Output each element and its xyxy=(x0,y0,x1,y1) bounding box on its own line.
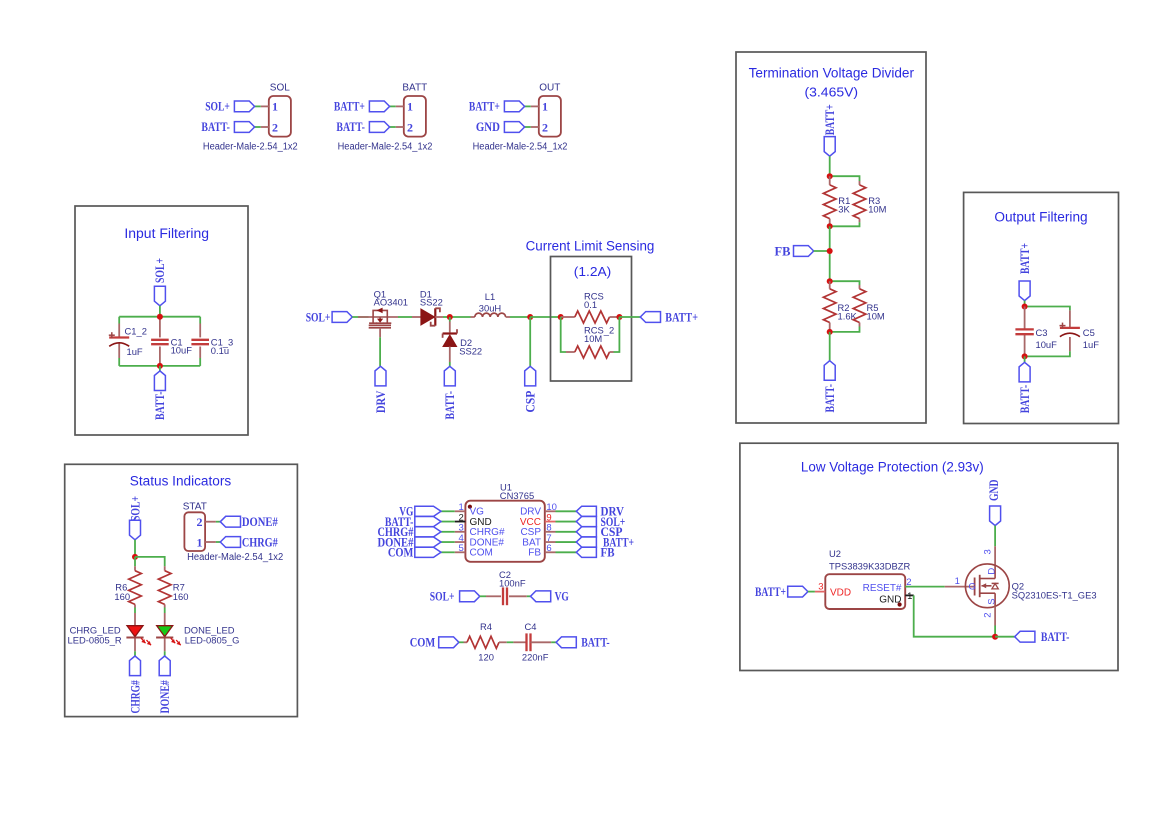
wire input filter bottom rail xyxy=(119,365,200,367)
U2 pin 1 (GND) black stub xyxy=(905,594,914,596)
wire to header SOL pin 1 xyxy=(255,105,261,107)
wire L1 to CSP node xyxy=(510,316,530,318)
net flag BATT+ (output filter) xyxy=(1019,281,1030,301)
wire BATT+ flag to U2 VDD xyxy=(808,591,815,593)
wire BATT+ flag to node xyxy=(1024,301,1026,307)
net flag DRV xyxy=(375,366,386,386)
resistor R6 leads xyxy=(134,566,136,571)
svg-text:SOL: SOL xyxy=(270,83,290,94)
header BATT pin 1 lead xyxy=(396,105,404,107)
wire Q1 drain to D1 xyxy=(398,316,412,318)
IC U2 TPS3839K33DBZR body xyxy=(825,574,905,609)
node BATT- junction (LVP) xyxy=(992,634,998,640)
node second divider top junction xyxy=(827,278,833,284)
net flag SOL+ (U1 pin 9) xyxy=(576,516,596,526)
svg-text:100nF: 100nF xyxy=(499,578,526,589)
svg-text:(1.2A): (1.2A) xyxy=(574,265,612,279)
svg-text:Input Filtering: Input Filtering xyxy=(124,226,209,241)
wire divider bottom to BATT- flag xyxy=(829,332,831,361)
net flag SOL+ (C2 row) xyxy=(460,591,480,602)
net flag BATT- (LVP) xyxy=(1015,631,1035,642)
connector header BATT xyxy=(404,96,426,137)
resistor R7 160 xyxy=(158,571,171,605)
wire SOL+ flag to node xyxy=(134,540,136,557)
wire from U1 pin 7 xyxy=(556,541,577,543)
resistor RCS lead right xyxy=(610,316,620,318)
section box Status Indicators xyxy=(65,464,298,716)
net flag BATT- (U1 pin 2) xyxy=(415,516,441,526)
wire C4 to BATT- flag xyxy=(551,641,556,643)
net flag SOL+ (main row) xyxy=(332,312,352,323)
U1 pin 1 polarity dot xyxy=(468,505,472,509)
resistor R5 leads xyxy=(859,285,861,289)
svg-text:3K: 3K xyxy=(838,204,850,215)
resistor R4 lead left xyxy=(464,641,468,643)
wire to U1 pin 2 xyxy=(441,521,455,523)
svg-text:Header-Male-2.54_1x2: Header-Male-2.54_1x2 xyxy=(473,142,568,153)
transistor Q2 gate lead xyxy=(945,586,974,588)
resistor RCS_2 lead left xyxy=(566,351,575,353)
svg-text:BATT+: BATT+ xyxy=(823,104,837,135)
node RCS left junction xyxy=(558,314,564,320)
svg-text:Output Filtering: Output Filtering xyxy=(994,210,1087,225)
svg-text:AO3401: AO3401 xyxy=(374,297,408,308)
svg-text:GND: GND xyxy=(987,480,1001,502)
svg-text:SOL+: SOL+ xyxy=(430,590,455,604)
net flag FB (U1 pin 6) xyxy=(576,547,596,557)
svg-text:BATT-: BATT- xyxy=(201,120,230,134)
capacitor C1 leads xyxy=(159,317,161,338)
net flag VG (U1 pin 1) xyxy=(415,506,441,516)
net flag GND xyxy=(990,506,1001,526)
resistor R3 10M xyxy=(853,185,866,219)
wire to header SOL pin 2 xyxy=(255,126,261,128)
header STAT pin 1 lead xyxy=(205,541,216,543)
svg-text:VG: VG xyxy=(555,590,569,604)
wire D2 to BATT- flag xyxy=(449,362,451,366)
wire to U1 pin 3 xyxy=(441,531,455,533)
svg-text:1uF: 1uF xyxy=(1083,339,1099,350)
svg-text:BATT+: BATT+ xyxy=(755,585,786,599)
net flag BATT- at header SOL pin 2 xyxy=(234,122,254,133)
svg-text:FB: FB xyxy=(775,244,791,258)
svg-text:G: G xyxy=(969,581,976,592)
capacitor C1_2 (polarized 1uF) xyxy=(109,336,129,338)
diode D1 SS22 (schottky) xyxy=(421,309,435,325)
U1 pin 8 (CSP) lead xyxy=(545,531,556,533)
svg-text:OUT: OUT xyxy=(539,83,560,94)
svg-text:FB: FB xyxy=(601,546,615,560)
wire R4 to C4 xyxy=(507,641,514,643)
capacitor C4 lead left xyxy=(513,641,526,643)
svg-text:LED-0805_G: LED-0805_G xyxy=(185,635,240,646)
wire node to BATT- flag xyxy=(159,366,161,371)
resistor RCS_2 10M xyxy=(575,346,610,358)
section box Input Filtering xyxy=(75,206,248,435)
net flag DONE# xyxy=(159,656,170,676)
svg-text:2: 2 xyxy=(272,120,278,134)
net flag BATT+ (U2 VDD) xyxy=(788,586,808,597)
wire R2/R5 bottom link xyxy=(830,327,860,332)
svg-text:BATT-: BATT- xyxy=(581,636,610,650)
wire DONE_LED to DONE# flag xyxy=(164,651,166,656)
wire left branch for C1_2 xyxy=(118,317,120,324)
net flag COM (R4 row) xyxy=(439,637,459,648)
CSP node junction xyxy=(527,314,533,320)
wire R1/R3 top link xyxy=(830,176,860,181)
svg-text:10uF: 10uF xyxy=(1036,339,1058,350)
net flag SOL+ at header SOL pin 1 xyxy=(234,101,254,112)
capacitor C4 lead right xyxy=(531,641,552,643)
svg-text:STAT: STAT xyxy=(183,502,207,513)
resistor R1 3K xyxy=(823,185,836,219)
net flag DRV (U1 pin 10) xyxy=(576,506,596,516)
capacitor C3 leads xyxy=(1024,307,1026,330)
wire to header BATT pin 2 xyxy=(390,126,396,128)
svg-text:160: 160 xyxy=(173,591,189,602)
capacitor C5 leads xyxy=(1069,310,1071,327)
svg-text:DRV: DRV xyxy=(374,391,388,414)
LED CHRG_LED cathode lead xyxy=(134,639,136,652)
wire branch to R7 xyxy=(135,557,165,566)
svg-text:VDD: VDD xyxy=(830,588,851,599)
svg-text:FB: FB xyxy=(528,548,541,559)
svg-text:U2: U2 xyxy=(829,548,841,559)
svg-text:BATT-: BATT- xyxy=(1041,630,1070,644)
IC U1 CN3765 body xyxy=(465,501,544,562)
svg-text:SS22: SS22 xyxy=(420,297,443,308)
wire input filter top rail xyxy=(119,316,200,318)
svg-text:SS22: SS22 xyxy=(459,345,482,356)
svg-text:10M: 10M xyxy=(584,333,602,344)
U2 pin 3 (VDD) lead xyxy=(815,591,825,593)
wire RCS to BATT+ flag xyxy=(619,316,640,318)
wire to header BATT pin 1 xyxy=(390,105,396,107)
wire U2 RESET# to Q2 gate xyxy=(905,586,945,588)
capacitor C1 (10uF) xyxy=(151,339,169,341)
wire to header OUT pin 1 xyxy=(525,105,531,107)
junction node input filter bottom xyxy=(157,363,163,369)
svg-text:0.1u: 0.1u xyxy=(211,345,229,356)
wire from U1 pin 9 xyxy=(556,521,577,523)
U1 pin 6 (FB) lead xyxy=(545,551,556,553)
node A junction xyxy=(447,314,453,320)
wire C5 bottom link xyxy=(1025,351,1070,356)
svg-text:1: 1 xyxy=(542,100,548,114)
diode D2 cathode lead xyxy=(449,322,451,333)
svg-text:1: 1 xyxy=(955,576,960,587)
svg-text:Current Limit Sensing: Current Limit Sensing xyxy=(526,239,655,254)
svg-text:(3.465V): (3.465V) xyxy=(805,86,859,100)
svg-text:2: 2 xyxy=(197,515,203,529)
transistor Q2 drain lead xyxy=(994,546,996,565)
svg-text:1: 1 xyxy=(272,100,278,114)
LED DONE_LED anode lead xyxy=(164,613,166,626)
svg-text:DONE#: DONE# xyxy=(158,680,172,714)
header SOL pin 2 lead xyxy=(261,126,269,128)
section box Low Voltage Protection xyxy=(740,443,1118,670)
net flag SOL+ (input filter top) xyxy=(154,286,165,306)
svg-text:10M: 10M xyxy=(868,204,886,215)
wire header STAT pin 2 xyxy=(216,521,220,523)
wire SOL+ flag to node xyxy=(159,306,161,317)
net flag BATT- (input filter bottom) xyxy=(154,371,165,391)
svg-text:1: 1 xyxy=(197,535,203,549)
resistor RCS_2 lead right xyxy=(610,351,614,353)
wire to U1 pin 5 xyxy=(441,551,455,553)
svg-text:LED-0805_R: LED-0805_R xyxy=(68,635,122,646)
junction node input filter top xyxy=(157,314,163,320)
wire GND flag to Q2 drain xyxy=(994,526,996,547)
wire C2 to VG flag xyxy=(527,595,531,597)
svg-text:CSP: CSP xyxy=(524,390,538,412)
capacitor C5 1uF (polarized) xyxy=(1060,327,1080,329)
U1 pin 7 (BAT) lead xyxy=(545,541,556,543)
wire R1/R3 bottom link xyxy=(830,222,860,226)
wire to U1 pin 1 xyxy=(441,510,455,512)
resistor RCS 0.1 (current sense) xyxy=(575,311,610,323)
svg-text:C1_2: C1_2 xyxy=(125,326,147,337)
U1 pin 4 (DONE#) lead xyxy=(455,541,466,543)
svg-text:Low Voltage Protection (2.93v): Low Voltage Protection (2.93v) xyxy=(801,460,984,475)
wire from U1 pin 10 xyxy=(556,510,577,512)
section box Output Filtering xyxy=(964,192,1119,423)
svg-text:1uF: 1uF xyxy=(127,346,143,357)
svg-text:S: S xyxy=(986,598,997,604)
capacitor C1_2 leads xyxy=(118,324,120,338)
svg-text:BATT: BATT xyxy=(402,83,427,94)
U2 GND polarity dot xyxy=(898,602,902,606)
net flag BATT- (under D2) xyxy=(444,366,455,386)
capacitor C2 lead left xyxy=(486,595,501,597)
wire junction to BATT- flag xyxy=(995,636,1015,638)
svg-text:5: 5 xyxy=(459,543,464,554)
svg-text:Status Indicators: Status Indicators xyxy=(130,474,232,489)
svg-text:BATT-: BATT- xyxy=(1018,385,1032,414)
wire D1 to node A xyxy=(443,316,450,318)
svg-text:BATT+: BATT+ xyxy=(469,100,500,114)
wire divider mid to FB node xyxy=(829,226,831,281)
svg-text:BATT+: BATT+ xyxy=(1018,243,1032,274)
svg-text:COM: COM xyxy=(388,546,414,560)
svg-text:Header-Male-2.54_1x2: Header-Male-2.54_1x2 xyxy=(338,142,433,153)
svg-text:DONE#: DONE# xyxy=(242,515,279,529)
svg-text:BATT+: BATT+ xyxy=(665,310,698,324)
net flag BATT- at header BATT pin 2 xyxy=(369,122,389,133)
svg-text:COM: COM xyxy=(410,636,436,650)
svg-text:120: 120 xyxy=(478,652,494,663)
net flag VG (C2 row) xyxy=(531,591,551,602)
svg-text:SOL+: SOL+ xyxy=(153,258,167,283)
wire to U1 pin 4 xyxy=(441,541,455,543)
inductor L1 lead left xyxy=(471,316,475,318)
capacitor C4 220nF xyxy=(525,633,527,651)
net flag DONE# (U1 pin 4) xyxy=(415,537,441,547)
net flag CSP (U1 pin 8) xyxy=(576,527,596,537)
node output filter bottom junction xyxy=(1022,353,1028,359)
node RCS right junction xyxy=(616,314,622,320)
connector header SOL xyxy=(269,96,291,137)
capacitor C1_3 leads xyxy=(199,324,201,338)
wire Q2 source to BATT- junction xyxy=(994,626,996,637)
svg-text:2: 2 xyxy=(542,120,548,134)
diode D2 anode lead xyxy=(449,347,451,362)
wire header STAT pin 1 xyxy=(216,541,220,543)
wire right branch for C1_3 xyxy=(199,317,201,324)
svg-text:2: 2 xyxy=(983,613,994,618)
svg-text:Termination Voltage Divider: Termination Voltage Divider xyxy=(749,66,915,81)
svg-text:SOL+: SOL+ xyxy=(205,100,230,114)
net flag BATT- (divider bottom) xyxy=(824,361,835,381)
wire R2/R5 top link xyxy=(830,281,860,285)
node FB junction xyxy=(827,248,833,254)
wire C5 top link xyxy=(1025,307,1070,311)
wire RCS_2 left branch xyxy=(561,317,566,352)
wire SOL+ flag to C2 xyxy=(480,595,486,597)
inductor L1 lead right xyxy=(506,316,510,318)
net flag BATT- (R4 row) xyxy=(556,637,576,648)
resistor R5 10M xyxy=(853,289,866,323)
wire SOL+ flag to Q1 xyxy=(352,316,368,318)
U1 pin 1 (VG) lead xyxy=(455,510,466,512)
capacitor C2 lead right xyxy=(509,595,527,597)
resistor R4 120 xyxy=(467,636,499,648)
svg-text:R4: R4 xyxy=(480,621,492,632)
resistor R6 160 xyxy=(129,571,142,605)
resistor R7 leads xyxy=(164,566,166,571)
svg-text:RESET#: RESET# xyxy=(863,583,902,594)
svg-text:Header-Male-2.54_1x2: Header-Male-2.54_1x2 xyxy=(187,552,284,563)
transistor Q1 gate lead xyxy=(379,328,381,338)
svg-text:BATT-: BATT- xyxy=(336,120,365,134)
resistor R1 leads xyxy=(829,176,831,185)
node output filter top junction xyxy=(1022,304,1028,310)
net flag GND at header OUT pin 2 xyxy=(504,122,524,133)
wire node A to L1 xyxy=(450,316,471,318)
header OUT pin 2 lead xyxy=(531,126,539,128)
resistor R3 leads xyxy=(859,181,861,185)
wire node to BATT- flag xyxy=(1024,356,1026,362)
svg-text:6: 6 xyxy=(546,543,551,554)
wire FB flag to node xyxy=(814,250,830,252)
wire to header OUT pin 2 xyxy=(525,126,531,128)
wire Q1 gate to DRV flag xyxy=(379,337,381,366)
header STAT pin 2 lead xyxy=(205,521,216,523)
U1 pin 9 (VCC) lead xyxy=(545,521,556,523)
svg-text:3: 3 xyxy=(818,581,823,592)
inductor L1 30uH coil xyxy=(475,313,506,317)
svg-text:10uF: 10uF xyxy=(171,345,193,356)
U1 pin 5 (COM) lead xyxy=(455,551,466,553)
wire U2 GND down and to BATT- junction xyxy=(914,595,995,636)
section box Termination Voltage Divider xyxy=(736,52,926,423)
net flag CHRG# (STAT) xyxy=(220,537,240,548)
svg-text:160: 160 xyxy=(114,591,130,602)
wire from U1 pin 6 xyxy=(556,551,577,553)
transistor Q1 AO3401 (P-MOSFET) xyxy=(358,308,398,328)
node divider top junction xyxy=(827,173,833,179)
section box Current Limit Sensing xyxy=(551,257,632,382)
wire R6 to CHRG_LED xyxy=(134,608,136,614)
net flag BATT- (output filter) xyxy=(1019,362,1030,382)
wire CHRG_LED to CHRG# flag xyxy=(134,651,136,656)
svg-text:0.1: 0.1 xyxy=(584,299,597,310)
net flag CHRG# xyxy=(130,656,141,676)
svg-text:30uH: 30uH xyxy=(479,302,501,313)
wire node A down to D2 xyxy=(449,317,451,322)
svg-text:SOL+: SOL+ xyxy=(128,496,142,521)
diode D1 anode lead xyxy=(412,316,421,318)
svg-text:BATT+: BATT+ xyxy=(334,100,365,114)
svg-text:C4: C4 xyxy=(525,621,537,632)
transistor Q2 source lead xyxy=(994,606,996,625)
svg-text:CN3765: CN3765 xyxy=(500,490,534,501)
net flag BATT+ at header OUT pin 1 xyxy=(504,101,524,112)
header OUT pin 1 lead xyxy=(531,105,539,107)
net flag COM (U1 pin 5) xyxy=(415,547,441,557)
connector header OUT xyxy=(539,96,561,137)
svg-text:GND: GND xyxy=(476,120,500,134)
wire R7 to DONE_LED xyxy=(164,608,166,614)
svg-text:BATT-: BATT- xyxy=(443,391,457,420)
svg-text:BATT-: BATT- xyxy=(153,392,167,421)
node status junction xyxy=(132,554,138,560)
LED DONE_LED (LED-0805_G, green) xyxy=(157,626,173,637)
svg-text:1: 1 xyxy=(407,100,413,114)
svg-text:CHRG#: CHRG# xyxy=(242,535,279,549)
svg-text:C3: C3 xyxy=(1036,327,1048,338)
net flag SOL+ (status) xyxy=(130,520,141,540)
net flag BATT+ (U1 pin 7) xyxy=(576,537,596,547)
diode D2 SS22 (schottky, pointing up) xyxy=(443,332,457,334)
svg-text:BATT-: BATT- xyxy=(823,384,837,413)
U1 pin 3 (CHRG#) lead xyxy=(455,531,466,533)
node second divider bottom junction xyxy=(827,329,833,335)
net flag BATT+ (divider top) xyxy=(824,137,835,157)
svg-text:10M: 10M xyxy=(867,310,885,321)
svg-text:SOL+: SOL+ xyxy=(306,310,331,324)
header BATT pin 2 lead xyxy=(396,126,404,128)
transistor Q2 SQ2310ES-T1_GE3 (MOSFET in circle) xyxy=(965,564,1009,608)
net flag CHRG# (U1 pin 3) xyxy=(415,527,441,537)
svg-text:COM: COM xyxy=(470,548,493,559)
wire BATT+ flag to node xyxy=(829,156,831,176)
capacitor C2 100nF xyxy=(502,587,504,605)
net flag CSP xyxy=(525,366,536,386)
capacitor C3 10uF xyxy=(1015,328,1033,330)
wire RCS_2 right branch xyxy=(614,317,620,352)
LED CHRG_LED anode lead xyxy=(134,613,136,626)
svg-text:2: 2 xyxy=(407,120,413,134)
wire COM flag to R4 xyxy=(459,641,464,643)
LED CHRG_LED (LED-0805_R, red) xyxy=(127,626,143,637)
capacitor C1_3 (0.1u) xyxy=(191,339,209,341)
svg-text:Header-Male-2.54_1x2: Header-Male-2.54_1x2 xyxy=(203,142,298,153)
svg-text:220nF: 220nF xyxy=(522,652,549,663)
svg-text:3: 3 xyxy=(983,549,994,554)
diode D1 cathode lead xyxy=(435,316,443,318)
U1 pin 10 (DRV) lead xyxy=(545,510,556,512)
svg-text:C5: C5 xyxy=(1083,327,1095,338)
net flag DONE# (STAT) xyxy=(220,516,240,527)
LED DONE_LED cathode lead xyxy=(164,639,166,652)
resistor R4 lead right xyxy=(499,641,507,643)
resistor R2 1.6K xyxy=(823,289,836,323)
svg-text:D: D xyxy=(986,568,997,575)
node divider mid junction xyxy=(827,223,833,229)
net flag BATT+ at header BATT pin 1 xyxy=(369,101,389,112)
wire node to R6 xyxy=(134,557,136,566)
